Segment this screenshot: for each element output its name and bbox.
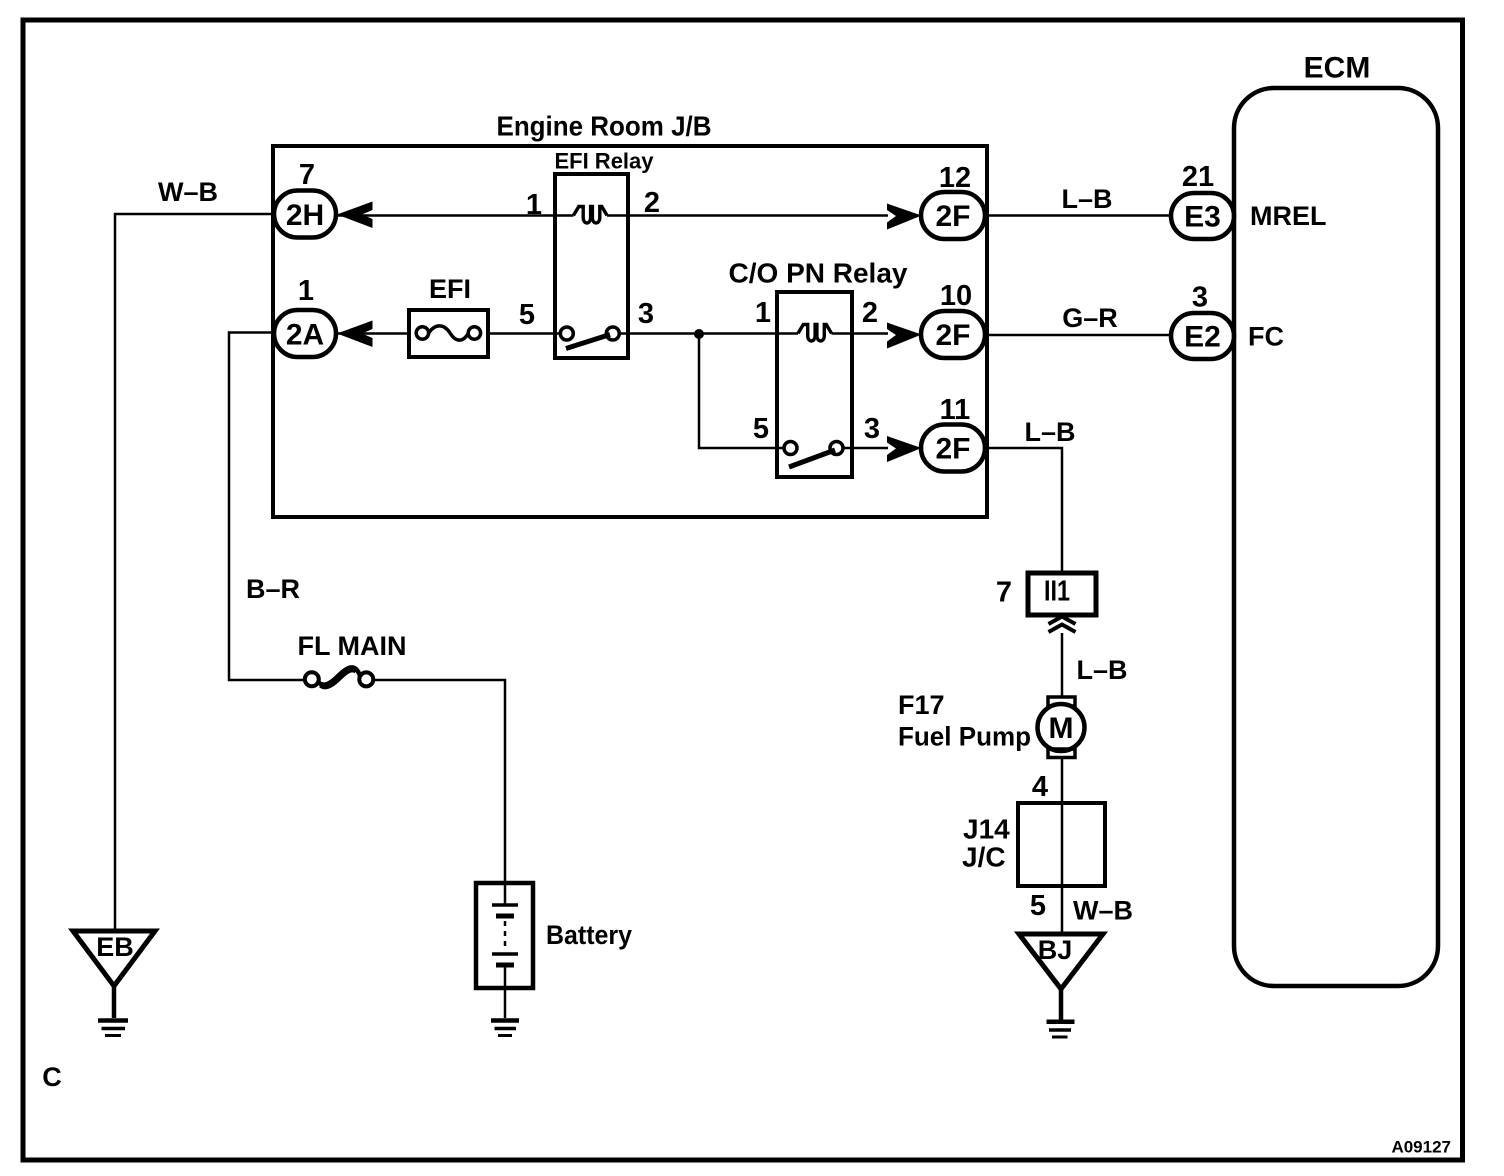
svg-text:2H: 2H bbox=[286, 199, 324, 232]
connector II1 box bbox=[1028, 573, 1096, 615]
svg-text:2: 2 bbox=[644, 187, 660, 219]
svg-text:L–B: L–B bbox=[1024, 417, 1075, 447]
connector E2 bbox=[1171, 313, 1234, 359]
svg-text:10: 10 bbox=[940, 280, 972, 312]
connector E3 bbox=[1171, 193, 1234, 239]
ECM U1 outline bbox=[1234, 88, 1438, 986]
svg-text:A09127: A09127 bbox=[1391, 1138, 1451, 1157]
svg-text:ECM: ECM bbox=[1304, 52, 1371, 85]
svg-text:2F: 2F bbox=[935, 433, 970, 466]
wire row2 relay to C/O coil with junction bbox=[618, 332, 888, 335]
svg-text:5: 5 bbox=[519, 299, 535, 331]
wire G-R row2 to E2 bbox=[985, 334, 1171, 337]
junction connector J14 J/C box bbox=[1018, 803, 1105, 886]
connector 2F pin 10 bbox=[921, 311, 985, 358]
svg-text:BJ: BJ bbox=[1038, 935, 1073, 965]
svg-text:J/C: J/C bbox=[962, 842, 1006, 873]
svg-text:L–B: L–B bbox=[1061, 184, 1112, 214]
C/O PN relay U3 box bbox=[777, 292, 852, 477]
wire row2 2A to fuse bbox=[336, 332, 409, 335]
svg-text:II1: II1 bbox=[1044, 576, 1070, 608]
svg-text:7: 7 bbox=[996, 577, 1012, 609]
motor M1 fuel pump bbox=[1048, 697, 1075, 706]
svg-text:7: 7 bbox=[299, 159, 315, 191]
connector 2F pin 11 bbox=[921, 425, 985, 472]
connector 2H bbox=[274, 191, 336, 238]
connector 2A bbox=[274, 310, 336, 357]
svg-text:1: 1 bbox=[298, 275, 314, 307]
wire L-B row1 to E3 bbox=[985, 214, 1171, 217]
fuse EFI element bbox=[416, 326, 480, 340]
svg-text:L–B: L–B bbox=[1076, 655, 1127, 685]
wire W-B from 2H to ground EB bbox=[115, 214, 274, 931]
wire row2 fuse to EFI relay switch bbox=[488, 332, 561, 335]
wire junction down to row3 bbox=[699, 334, 785, 448]
svg-text:11: 11 bbox=[940, 394, 971, 426]
wire FL MAIN to battery bbox=[373, 680, 505, 904]
svg-text:G–R: G–R bbox=[1062, 303, 1118, 333]
wire B-R from 2A to FL MAIN bbox=[229, 333, 305, 681]
ground symbol below battery bbox=[491, 1021, 519, 1036]
svg-text:12: 12 bbox=[939, 162, 971, 194]
svg-text:C: C bbox=[42, 1062, 62, 1092]
wire L-B from 2F(11) down to II1 bbox=[985, 448, 1062, 573]
svg-text:C/O PN Relay: C/O PN Relay bbox=[729, 258, 908, 289]
fuse EFI box bbox=[409, 310, 488, 357]
svg-text:Engine Room J/B: Engine Room J/B bbox=[497, 111, 712, 142]
svg-text:5: 5 bbox=[1030, 890, 1046, 922]
node junction dot bbox=[694, 329, 704, 339]
svg-text:J14: J14 bbox=[963, 814, 1010, 845]
svg-text:MREL: MREL bbox=[1250, 201, 1327, 231]
ground point EB bbox=[73, 931, 155, 986]
svg-text:3: 3 bbox=[638, 298, 654, 330]
EFI relay coil L bbox=[574, 207, 608, 224]
C/O PN relay coil L bbox=[798, 325, 832, 342]
svg-text:W–B: W–B bbox=[1073, 896, 1133, 926]
svg-text:2: 2 bbox=[862, 297, 878, 329]
EFI relay switch contacts bbox=[560, 327, 619, 349]
svg-text:EB: EB bbox=[96, 932, 134, 962]
svg-text:4: 4 bbox=[1032, 771, 1048, 803]
svg-text:2F: 2F bbox=[935, 319, 970, 352]
connector arrow at 2F(12) bbox=[887, 204, 922, 230]
connector arrow at 2F(10) bbox=[887, 323, 922, 349]
svg-text:2A: 2A bbox=[286, 319, 324, 352]
svg-text:3: 3 bbox=[864, 413, 880, 445]
svg-text:3: 3 bbox=[1192, 282, 1208, 314]
wire row1 from 2H to 2F(12) bbox=[336, 214, 888, 217]
svg-text:B–R: B–R bbox=[246, 574, 300, 604]
svg-text:Battery: Battery bbox=[546, 920, 632, 950]
svg-text:2F: 2F bbox=[935, 200, 970, 233]
battery B1 box bbox=[476, 883, 533, 988]
EFI relay U2 box bbox=[555, 174, 628, 358]
svg-text:5: 5 bbox=[753, 413, 769, 445]
connector arrow at 2F(11) bbox=[887, 436, 922, 462]
svg-text:FL MAIN: FL MAIN bbox=[298, 631, 407, 661]
svg-text:1: 1 bbox=[526, 189, 542, 221]
svg-text:W–B: W–B bbox=[158, 177, 218, 207]
svg-text:1: 1 bbox=[755, 297, 771, 329]
svg-text:M: M bbox=[1049, 712, 1074, 745]
wire motor to BJ through J14 bbox=[1061, 758, 1064, 934]
svg-text:Fuel Pump: Fuel Pump bbox=[898, 722, 1031, 752]
wire L-B to fuel pump bbox=[1061, 633, 1064, 697]
svg-text:E3: E3 bbox=[1184, 201, 1221, 234]
battery plates bbox=[492, 905, 518, 965]
connector 2F pin 12 bbox=[921, 192, 985, 239]
svg-text:21: 21 bbox=[1182, 161, 1214, 193]
ground symbol below BJ bbox=[1047, 989, 1075, 1037]
svg-text:EFI Relay: EFI Relay bbox=[554, 149, 654, 174]
svg-text:F17: F17 bbox=[898, 690, 945, 720]
wire row3 relay to 2F(11) bbox=[843, 447, 888, 450]
chevron marks below II1 bbox=[1049, 617, 1076, 633]
connector arrow at 2H bbox=[337, 202, 373, 229]
svg-text:EFI: EFI bbox=[429, 274, 471, 304]
fusible link FL MAIN element bbox=[305, 667, 374, 687]
C/O PN relay switch contacts bbox=[784, 442, 843, 468]
Engine Room J/B box bbox=[273, 146, 987, 517]
svg-text:FC: FC bbox=[1248, 322, 1284, 352]
svg-text:E2: E2 bbox=[1184, 321, 1221, 354]
ground symbol below EB bbox=[98, 986, 128, 1036]
wire battery to ground bbox=[504, 967, 507, 1018]
ground point BJ bbox=[1019, 934, 1103, 989]
connector arrow at 2A bbox=[337, 321, 373, 348]
